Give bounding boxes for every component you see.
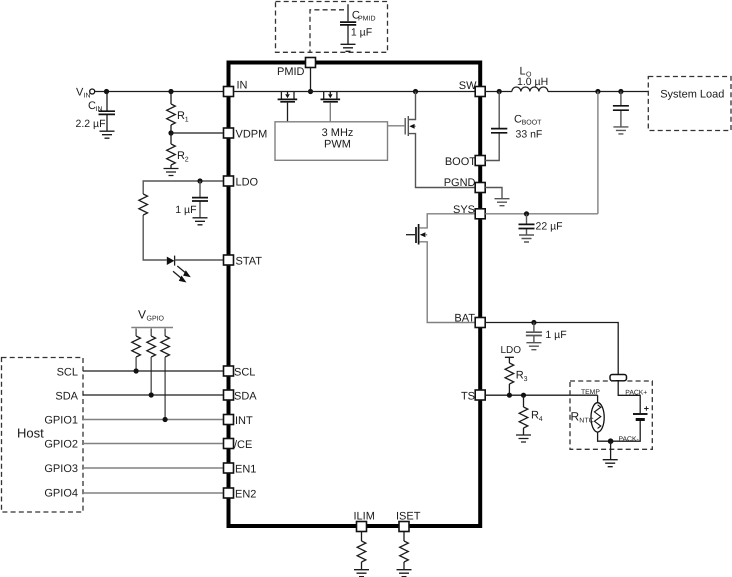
ground (load cap) xyxy=(613,127,628,134)
node LDO cap junction xyxy=(197,178,202,183)
svg-text:VDPM: VDPM xyxy=(236,129,268,141)
resistor RILIM xyxy=(361,532,363,542)
LED arrow 1 xyxy=(177,266,187,274)
node PACK- junction xyxy=(608,438,614,444)
svg-text:IN: IN xyxy=(96,106,103,113)
svg-text:TS: TS xyxy=(461,391,475,403)
node VDPM junction xyxy=(168,130,173,135)
svg-text:2.2 µF: 2.2 µF xyxy=(76,118,106,130)
wire Q1 gate to PWM xyxy=(287,103,289,122)
node load cap junction xyxy=(618,89,623,94)
wire BAT net xyxy=(485,323,618,375)
resistor pullup SDA xyxy=(150,329,152,337)
svg-text:EN2: EN2 xyxy=(235,489,256,501)
svg-text:BOOT: BOOT xyxy=(522,120,543,127)
pin LDO xyxy=(224,176,234,186)
wire SW to inductor xyxy=(485,91,512,93)
resistor R1 xyxy=(170,92,172,105)
pin INT xyxy=(224,415,234,425)
PWM block xyxy=(275,122,388,161)
wire GPIO4 to EN2 xyxy=(83,492,224,494)
svg-text:SW: SW xyxy=(459,80,477,92)
wire PMID stub to rail xyxy=(310,68,312,92)
ground (ISET) xyxy=(397,570,412,577)
pin SCL xyxy=(224,366,234,376)
Q4 arrow xyxy=(420,232,426,237)
svg-text:GPIO3: GPIO3 xyxy=(44,463,78,475)
resistor pullup SCL xyxy=(135,329,137,337)
node CIN junction xyxy=(104,89,109,94)
wire Q2 gate to PWM xyxy=(329,103,331,122)
transistor Q2 (PMOS right) xyxy=(324,92,337,99)
pin VDPM xyxy=(224,128,234,138)
capacitor CPMID xyxy=(347,4,349,44)
svg-text:Host: Host xyxy=(17,426,44,441)
pin TS xyxy=(475,390,485,400)
wire inductor to System Load xyxy=(548,91,648,93)
svg-text:R: R xyxy=(531,410,539,422)
ground (CIN) xyxy=(100,131,115,138)
capacitor 1uF (BAT) xyxy=(533,323,535,343)
svg-text:GPIO2: GPIO2 xyxy=(44,439,78,451)
svg-text:LDO: LDO xyxy=(501,345,522,356)
svg-text:SDA: SDA xyxy=(55,391,78,403)
System Load dashed box xyxy=(648,77,731,131)
Q4 gate stub xyxy=(406,234,415,236)
svg-text:R: R xyxy=(571,409,580,423)
IC U1 outline xyxy=(229,63,481,527)
svg-text:IN: IN xyxy=(84,93,91,100)
wire VIN to IN pin xyxy=(95,91,224,93)
resistor R4 xyxy=(523,395,525,407)
svg-text:GPIO4: GPIO4 xyxy=(44,488,78,500)
svg-text:SYS: SYS xyxy=(453,204,475,216)
resistor R2 xyxy=(170,133,172,144)
svg-text:1: 1 xyxy=(185,116,189,123)
svg-text:4: 4 xyxy=(539,416,543,423)
svg-text:GPIO: GPIO xyxy=(147,316,165,323)
node 22uF junction xyxy=(524,211,529,216)
pin SYS xyxy=(475,209,485,219)
svg-text:22 µF: 22 µF xyxy=(536,221,563,233)
wire GPIO3 to EN1 xyxy=(83,467,224,469)
svg-text:ILIM: ILIM xyxy=(354,511,375,523)
wire VDPM xyxy=(171,132,224,134)
resistor pullup GPIO1 xyxy=(164,329,166,337)
svg-text:R: R xyxy=(177,150,185,162)
pin PGND xyxy=(475,183,485,193)
wire LDO net xyxy=(143,181,223,260)
svg-text:1 µF: 1 µF xyxy=(545,329,566,341)
rail tap LDO xyxy=(505,357,514,363)
ground (R2) xyxy=(164,169,179,176)
svg-text:1 µF: 1 µF xyxy=(175,204,196,216)
svg-text:PGND: PGND xyxy=(444,177,476,189)
pin ISET xyxy=(399,522,409,532)
svg-text:3 MHz: 3 MHz xyxy=(322,127,354,139)
resistor RISET xyxy=(403,532,405,542)
wire Q3 source to PGND xyxy=(409,134,475,188)
node R4 junction xyxy=(521,393,526,398)
ground (ILIM) xyxy=(354,570,369,577)
dashed box around CPMID (inner partial) xyxy=(310,10,344,53)
capacitor system load xyxy=(620,92,622,127)
wire GPIO1 to INT xyxy=(83,419,224,421)
transistor Q1 (PMOS left) xyxy=(281,92,294,99)
LED D1 xyxy=(167,257,175,265)
pin PMID xyxy=(306,58,316,68)
node R3 junction xyxy=(507,393,512,398)
svg-text:PWM: PWM xyxy=(324,139,351,151)
LED arrow 2 xyxy=(173,271,183,279)
svg-text:3: 3 xyxy=(524,376,528,383)
battery BT1 xyxy=(633,413,648,415)
wire SCL xyxy=(83,370,224,372)
svg-text:System Load: System Load xyxy=(660,88,724,100)
resistor R3 xyxy=(505,363,514,384)
svg-text:R: R xyxy=(177,110,185,122)
wire TS net xyxy=(485,394,597,396)
svg-text:1.0 µH: 1.0 µH xyxy=(517,76,548,88)
pin STAT xyxy=(224,255,234,265)
Q3 arrow xyxy=(409,124,414,129)
svg-text:SCL: SCL xyxy=(234,367,255,379)
svg-text:R: R xyxy=(516,370,524,382)
wire battery to PACK- node xyxy=(611,421,641,441)
pin ILIM xyxy=(357,522,367,532)
svg-text:1 µF: 1 µF xyxy=(351,27,372,39)
transistor Q4 (battery FET) xyxy=(420,214,476,228)
svg-text:GPIO1: GPIO1 xyxy=(44,415,78,427)
wire SYS to riser xyxy=(485,213,598,215)
svg-text:BOOT: BOOT xyxy=(445,156,476,168)
svg-text:/CE: /CE xyxy=(234,439,252,451)
ground (CPMID) xyxy=(341,44,356,51)
svg-text:2: 2 xyxy=(185,156,189,163)
pin EN2 xyxy=(224,488,234,498)
thermistor RNTC xyxy=(597,395,599,403)
internal rail IN-SW xyxy=(234,91,476,93)
svg-text:SDA: SDA xyxy=(234,391,257,403)
svg-text:EN1: EN1 xyxy=(235,464,256,476)
pin BOOT xyxy=(475,156,485,166)
pin BAT xyxy=(475,318,485,328)
transistor Q3 (low-side NFET) xyxy=(409,92,416,120)
svg-text:33 nF: 33 nF xyxy=(516,129,543,141)
dashed box around CPMID (outer) xyxy=(276,2,388,53)
svg-text:TEMP: TEMP xyxy=(581,389,600,396)
resistor (LED series) xyxy=(139,194,148,215)
ground (22uF) xyxy=(519,235,534,242)
svg-text:PMID: PMID xyxy=(358,15,376,22)
wire riser SW node to SYS xyxy=(597,92,599,214)
pin SDA xyxy=(224,390,234,400)
svg-text:IN: IN xyxy=(237,80,248,92)
battery pack dashed box xyxy=(570,381,652,449)
svg-text:STAT: STAT xyxy=(236,256,263,268)
wire SDA xyxy=(83,394,224,396)
connector pack terminal xyxy=(610,375,627,381)
ground (PGND) xyxy=(485,188,502,199)
wire Q3 gate from PWM xyxy=(388,125,405,127)
ground (BAT cap) xyxy=(526,343,541,350)
wire Q4 source to BAT xyxy=(420,242,476,323)
pin IN xyxy=(224,87,234,97)
svg-text:+: + xyxy=(644,404,649,414)
wire GPIO2 to /CE xyxy=(83,443,224,445)
pin /CE xyxy=(224,439,234,449)
ground (R4) xyxy=(516,435,531,442)
capacitor 1uF (LDO) xyxy=(199,181,201,218)
capacitor CIN 2.2uF xyxy=(106,92,108,132)
svg-text:INT: INT xyxy=(235,415,253,427)
ground (pack) xyxy=(610,441,612,460)
node PMID junction xyxy=(308,89,313,94)
node CBOOT junction xyxy=(497,89,502,94)
svg-text:NTC: NTC xyxy=(579,417,593,424)
svg-text:SCL: SCL xyxy=(57,367,78,379)
svg-text:V: V xyxy=(138,308,146,322)
capacitor 22uF xyxy=(526,214,528,235)
pin EN1 xyxy=(224,463,234,473)
svg-text:ISET: ISET xyxy=(396,511,421,523)
svg-text:LDO: LDO xyxy=(236,177,259,189)
inductor LO xyxy=(512,87,548,92)
node R1 junction xyxy=(168,89,173,94)
pin SW xyxy=(475,87,485,97)
wire LED to STAT xyxy=(175,259,224,261)
Host dashed box xyxy=(2,358,84,513)
capacitor CBOOT xyxy=(485,92,499,161)
wire PACK+ net xyxy=(618,381,640,413)
svg-text:PMID: PMID xyxy=(277,66,305,78)
node SYS riser junction xyxy=(595,89,600,94)
svg-text:BAT: BAT xyxy=(454,313,475,325)
node SW internal junction xyxy=(413,89,418,94)
node BAT cap junction xyxy=(531,320,536,325)
ground (LDO cap) xyxy=(193,218,208,225)
